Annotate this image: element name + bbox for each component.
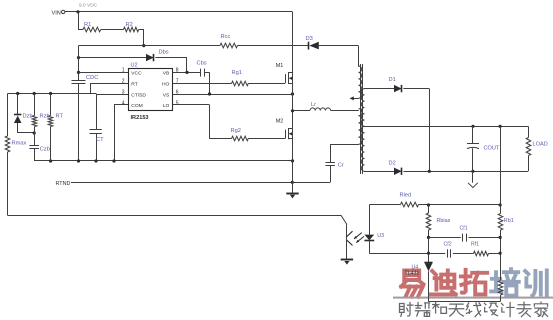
svg-text:Rg1: Rg1 [232,70,242,76]
svg-text:M2: M2 [276,118,284,124]
svg-text:R1: R1 [84,22,91,28]
svg-text:Rb1: Rb1 [504,218,514,224]
svg-text:Rmax: Rmax [12,140,27,146]
svg-text:Rzb: Rzb [40,113,50,119]
svg-text:LOAD: LOAD [533,142,548,148]
svg-text:LO: LO [163,103,170,109]
svg-text:VCC: VCC [131,71,142,77]
svg-text:Rled: Rled [400,193,412,199]
svg-text:M1: M1 [276,63,284,69]
svg-text:Rf1: Rf1 [471,241,479,247]
svg-text:VB: VB [163,71,170,77]
svg-text:Dbs: Dbs [159,49,169,55]
svg-text:Dzb: Dzb [23,113,33,119]
svg-text:Cf2: Cf2 [444,241,452,247]
svg-text:D1: D1 [389,77,396,83]
svg-text:9.0 VDC: 9.0 VDC [79,2,98,8]
svg-text:VS: VS [163,92,170,98]
svg-text:4: 4 [122,100,125,106]
svg-text:D3: D3 [306,36,313,42]
svg-text:COUT: COUT [484,145,500,151]
svg-text:RTND: RTND [56,181,71,187]
svg-text:IR2153: IR2153 [131,115,149,121]
svg-text:Cr: Cr [338,163,344,169]
svg-text:Rcc: Rcc [221,34,231,40]
svg-text:CT/SD: CT/SD [131,92,146,98]
svg-text:VIN: VIN [51,10,60,16]
svg-text:CT: CT [96,137,104,143]
svg-text:U2: U2 [131,63,138,69]
svg-text:CDC: CDC [86,75,98,81]
svg-text:U3: U3 [377,233,384,239]
svg-text:COM: COM [131,103,142,109]
svg-text:Lr: Lr [311,102,316,108]
svg-text:Czb: Czb [40,147,50,153]
svg-text:RT: RT [56,113,64,119]
svg-text:5: 5 [176,100,179,106]
svg-text:2: 2 [122,79,125,85]
svg-text:Cf1: Cf1 [460,225,468,231]
svg-text:D2: D2 [389,161,396,167]
svg-text:R2: R2 [126,22,133,28]
svg-text:Rg2: Rg2 [231,128,241,134]
svg-text:Cbs: Cbs [197,61,207,67]
svg-text:Rbias: Rbias [437,218,451,224]
svg-text:HO: HO [162,81,170,87]
svg-text:RT: RT [131,81,137,87]
svg-text:3: 3 [122,89,125,95]
svg-text:TL431: TL431 [405,271,420,277]
svg-text:1: 1 [122,68,125,74]
